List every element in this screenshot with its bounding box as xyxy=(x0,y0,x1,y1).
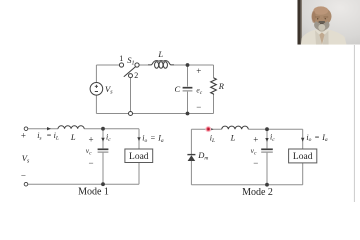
svg-text:L: L xyxy=(230,132,236,142)
capacitor C mode1 xyxy=(98,148,109,150)
svg-text:1: 1 xyxy=(119,54,123,63)
svg-text:Mode 2: Mode 2 xyxy=(242,187,273,198)
wire mode2 bottom xyxy=(191,184,302,186)
diode Dm xyxy=(187,154,195,156)
svg-text:+: + xyxy=(196,66,201,76)
inductor L xyxy=(148,61,174,65)
svg-text:Mode 1: Mode 1 xyxy=(78,187,109,198)
wire right rail xyxy=(213,65,215,114)
svg-text:+: + xyxy=(88,134,93,144)
voltage source Vs xyxy=(90,83,103,96)
svg-text:−: − xyxy=(196,102,201,112)
svg-text:−: − xyxy=(253,158,258,168)
arrow ic mode2 xyxy=(265,138,268,142)
svg-text:+: + xyxy=(253,134,258,144)
node mode1 cap top xyxy=(101,127,105,131)
svg-text:R: R xyxy=(218,81,225,91)
terminal mode1 bottom xyxy=(24,182,28,186)
svg-text:L: L xyxy=(70,132,76,142)
terminal mode1 top xyxy=(24,127,28,131)
wire switch pos2 down xyxy=(130,78,132,112)
resistor R xyxy=(211,78,217,94)
wire top-left horizontal xyxy=(96,64,119,66)
svg-text:L: L xyxy=(157,49,163,59)
switch S1 contact 2 xyxy=(129,74,133,78)
inductor L mode1 xyxy=(58,126,84,129)
capacitor C mode2 xyxy=(261,148,273,150)
load box mode2 xyxy=(289,149,317,163)
wire mode1 inductor to load corner xyxy=(84,128,139,130)
svg-text:2: 2 xyxy=(134,71,138,80)
wire left rail xyxy=(95,65,97,114)
switch S1 pole xyxy=(135,63,139,67)
arrow iL mode2 xyxy=(210,128,214,131)
arrow io mode2 xyxy=(301,138,304,142)
wire bottom rail xyxy=(96,113,213,115)
inductor L mode2 xyxy=(222,126,249,129)
svg-text:Load: Load xyxy=(129,152,149,162)
node A (cap top) xyxy=(186,63,190,67)
wire mode2 left rail xyxy=(190,129,192,185)
node mode1 cap bottom xyxy=(101,182,105,186)
arrow io mode1 xyxy=(137,137,140,141)
wire mode2 top xyxy=(191,128,221,130)
webcam overlay xyxy=(297,0,360,45)
svg-text:+: + xyxy=(21,131,26,141)
capacitor C xyxy=(183,87,193,89)
load box mode1 xyxy=(125,149,153,163)
wire mode1 cap branch xyxy=(102,129,104,185)
wire mode2 load branch xyxy=(302,129,304,185)
wire mode1 top xyxy=(28,128,58,130)
switch S1 blade xyxy=(124,67,136,77)
node: pos2 on bottom rail xyxy=(129,112,133,116)
node B (cap bottom) xyxy=(186,112,190,116)
slide edge line xyxy=(353,45,355,202)
arrow ic mode1 xyxy=(101,138,104,142)
svg-text:−: − xyxy=(88,158,93,168)
wire mode2 inductor to corner xyxy=(248,128,302,130)
svg-text:−: − xyxy=(21,170,26,180)
pointer marker red dot xyxy=(205,126,211,132)
switch S1 contact 1 xyxy=(119,63,123,67)
svg-text:Load: Load xyxy=(293,152,313,162)
node mode2 cap top xyxy=(265,127,269,131)
node mode2 cap bottom xyxy=(265,183,269,187)
wire capacitor branch xyxy=(187,65,189,114)
wire mode1 load branch xyxy=(138,129,140,185)
wire inductor to node xyxy=(174,64,214,66)
arrow is mode1 xyxy=(47,127,51,130)
wire pole to inductor xyxy=(139,64,148,66)
wire mode1 bottom xyxy=(28,183,139,185)
wire mode2 cap branch xyxy=(266,129,268,185)
svg-text:C: C xyxy=(175,84,181,94)
